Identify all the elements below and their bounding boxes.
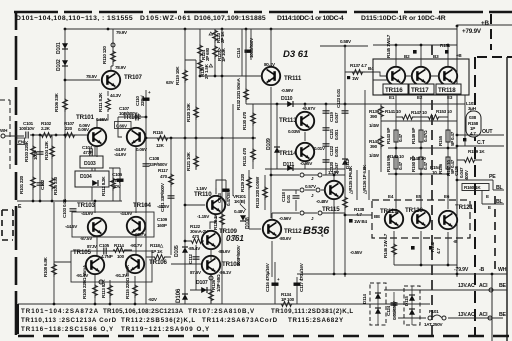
resistor R121 10K bbox=[194, 155, 199, 169]
input terminal bbox=[1, 134, 5, 138]
resistor R123 2P 1K bbox=[214, 29, 216, 76]
wire: TR111 emitter down x271 bbox=[270, 87, 272, 218]
diode D110 bbox=[287, 101, 293, 107]
wire: TR107 collector feed x108 bbox=[111, 29, 113, 70]
svg-text:R119 10K: R119 10K bbox=[175, 66, 180, 85]
resistor R113 82K bbox=[109, 280, 111, 303]
resistor R107 220 bbox=[63, 133, 77, 138]
diode D112 bbox=[342, 159, 348, 165]
capacitor 100P drop bbox=[39, 135, 41, 201]
resistor R135 1P 6.8K bbox=[357, 170, 369, 200]
svg-text:D114: D114 bbox=[362, 294, 367, 304]
resistor R143 5P 0.47 bbox=[394, 130, 398, 142]
transistor TR106 bbox=[126, 255, 144, 273]
svg-text:TR114: TR114 bbox=[279, 150, 297, 157]
capacitor C110 220u bbox=[143, 98, 150, 101]
svg-text:100/10V: 100/10V bbox=[19, 126, 36, 131]
capacitor C112 bbox=[193, 257, 200, 259]
wire: horizontal y104 bbox=[246, 103, 362, 105]
svg-text:1W: 1W bbox=[352, 76, 359, 81]
capacitor C117 470u/16V bbox=[296, 277, 298, 304]
svg-text:0.001: 0.001 bbox=[334, 146, 339, 157]
capacitor C105 bbox=[104, 248, 106, 255]
svg-text:R141 10: R141 10 bbox=[385, 109, 401, 114]
capacitor C103 0.01 bbox=[70, 209, 77, 211]
wire: TR111 base to x222 bbox=[200, 75, 262, 77]
resistor R106 33K bbox=[63, 98, 68, 112]
svg-text:R152: R152 bbox=[430, 241, 435, 252]
resistor R148 (square) bbox=[413, 50, 417, 54]
svg-text:R115 220Ω 45mA: R115 220Ω 45mA bbox=[125, 264, 130, 299]
output box TR119-TR121 dashed bbox=[372, 200, 470, 238]
capacitor C120 0.047 bbox=[323, 160, 330, 162]
resistor R138 4.7 bbox=[343, 196, 348, 210]
svg-text:BE: BE bbox=[499, 312, 507, 318]
wire: vertical x253 R130 R131 bbox=[252, 104, 254, 169]
svg-text:D105: D105 bbox=[174, 245, 180, 257]
svg-text:R110 120: R110 120 bbox=[102, 46, 107, 64]
svg-text:D115: D115 bbox=[404, 296, 409, 306]
svg-text:-0.56V: -0.56V bbox=[279, 216, 292, 221]
svg-text:E: E bbox=[486, 194, 489, 199]
resistor R137 4.7 1W bbox=[345, 72, 387, 76]
svg-text:B2: B2 bbox=[404, 54, 410, 59]
svg-text:1P 10K: 1P 10K bbox=[221, 47, 226, 62]
resistor R104 12K drop bbox=[52, 135, 56, 201]
svg-text:-80.6V: -80.6V bbox=[279, 236, 292, 241]
svg-text:3µH: 3µH bbox=[468, 106, 477, 111]
svg-text:R153 10: R153 10 bbox=[436, 109, 452, 114]
svg-text:WH: WH bbox=[0, 128, 8, 133]
svg-text:D105:WZ-061: D105:WZ-061 bbox=[140, 15, 191, 22]
svg-text:4.7: 4.7 bbox=[356, 212, 362, 217]
svg-text:TR115: TR115 bbox=[322, 206, 340, 213]
wire: TR112 emitter down bbox=[271, 241, 273, 277]
wire: output row y104 bbox=[357, 104, 465, 121]
svg-text:33P/500V: 33P/500V bbox=[149, 162, 168, 167]
resistor R144 5P 0.47 bbox=[394, 157, 398, 169]
svg-text:12K: 12K bbox=[156, 143, 165, 148]
svg-text:TR105: TR105 bbox=[73, 249, 92, 256]
resistor R112 8.2K bbox=[112, 168, 114, 201]
svg-text:-90.7V: -90.7V bbox=[130, 243, 143, 248]
svg-text:C105: C105 bbox=[99, 243, 110, 248]
diode D104 box bbox=[75, 171, 109, 187]
svg-text:1AT 250V: 1AT 250V bbox=[424, 322, 444, 327]
capacitor C119 0.047 bbox=[325, 104, 327, 175]
svg-text:C108: C108 bbox=[149, 156, 160, 161]
capacitor C106 470u 70V bbox=[109, 168, 120, 201]
transistor TR108 bbox=[210, 249, 212, 260]
svg-text:OUT: OUT bbox=[482, 129, 493, 135]
resistor R111 8.2K bbox=[97, 91, 108, 128]
resistor R151 (square) bbox=[445, 50, 449, 54]
wire: E ground rail bbox=[17, 200, 122, 202]
svg-text:B53̨6: B53̨6 bbox=[303, 225, 330, 237]
transistor TR101 bbox=[88, 128, 106, 146]
svg-text:E4: E4 bbox=[388, 194, 394, 199]
wire: vertical x185 bbox=[184, 29, 186, 304]
svg-text:03̆61: 03̆61 bbox=[226, 234, 244, 243]
svg-text:TR109,111:2SD381(2)K,L: TR109,111:2SD381(2)K,L bbox=[271, 308, 353, 315]
svg-text:13V.AC: 13V.AC bbox=[458, 283, 475, 289]
svg-text:R149 5P: R149 5P bbox=[411, 128, 416, 144]
resistor R139 390 bbox=[364, 90, 366, 170]
wire: D103-D104 link bbox=[92, 168, 95, 201]
svg-text:-44.9V: -44.9V bbox=[114, 152, 127, 157]
svg-text:87JV: 87JV bbox=[87, 244, 98, 249]
transistor TR109 bbox=[202, 231, 220, 249]
resistor R101 220 bbox=[31, 176, 36, 190]
wire: vertical x196 bbox=[185, 60, 196, 290]
resistor R125 2P 1.5K bbox=[198, 59, 203, 73]
svg-text:80.4V: 80.4V bbox=[264, 62, 276, 67]
svg-text:87.6V: 87.6V bbox=[190, 270, 202, 275]
svg-text:E: E bbox=[488, 205, 491, 210]
svg-text:220µ/: 220µ/ bbox=[140, 95, 145, 106]
diode D101 bbox=[62, 43, 68, 49]
svg-text:R151: R151 bbox=[440, 43, 451, 48]
transistor TR119 bbox=[385, 210, 403, 228]
svg-text:-92V: -92V bbox=[148, 297, 158, 302]
resistor R128 1K bbox=[221, 205, 223, 240]
svg-text:2P 1.5K: 2P 1.5K bbox=[204, 63, 209, 79]
svg-text:E2: E2 bbox=[417, 95, 423, 100]
capacitor C116 470u/16V bbox=[274, 262, 276, 304]
svg-text:390: 390 bbox=[370, 114, 378, 119]
svg-text:E1: E1 bbox=[389, 95, 395, 100]
svg-text:0.47/35V: 0.47/35V bbox=[226, 188, 231, 206]
wire: TR107 base to bus bbox=[65, 79, 100, 81]
svg-text:+B: +B bbox=[456, 53, 462, 58]
wire: TR101 collector chain down bbox=[94, 147, 96, 156]
resistor R110 120 1/4W bbox=[111, 50, 116, 64]
node: +B top right bbox=[456, 25, 459, 28]
svg-text:+79.9V: +79.9V bbox=[462, 28, 482, 35]
svg-text:TR116: TR116 bbox=[385, 87, 403, 94]
svg-text:D101: D101 bbox=[56, 42, 62, 54]
svg-text:TR118: TR118 bbox=[438, 87, 456, 94]
svg-text:5P 0.47: 5P 0.47 bbox=[450, 131, 455, 146]
svg-text:-45.5V: -45.5V bbox=[157, 204, 170, 209]
resistor R124 2P 680 bbox=[199, 29, 201, 76]
svg-text:2.2K: 2.2K bbox=[41, 126, 51, 131]
svg-text:2P 680: 2P 680 bbox=[205, 47, 210, 61]
resistor R140 390 bbox=[379, 135, 384, 149]
svg-text:0.06V: 0.06V bbox=[79, 123, 91, 128]
svg-text:R146 1W 4.7: R146 1W 4.7 bbox=[383, 233, 388, 258]
svg-text:390: 390 bbox=[370, 144, 378, 149]
svg-text:-0.59V: -0.59V bbox=[281, 88, 294, 93]
svg-text:TR108: TR108 bbox=[222, 261, 241, 268]
svg-text:R118△: R118△ bbox=[150, 243, 164, 248]
transistor TR107 bbox=[102, 71, 120, 89]
svg-text:R130 470: R130 470 bbox=[242, 111, 247, 130]
svg-text:D110: D110 bbox=[281, 96, 293, 102]
capacitor C122 0.001 bbox=[323, 144, 330, 146]
wire: vertical x222 bbox=[221, 29, 223, 304]
wire: +B feed y46 bbox=[373, 45, 457, 66]
svg-text:R128 1K: R128 1K bbox=[213, 213, 218, 230]
svg-text:D106,107,109:1S1885: D106,107,109:1S1885 bbox=[194, 15, 266, 22]
svg-text:1/4W: 1/4W bbox=[369, 123, 380, 128]
inductor L101 3uH bbox=[464, 95, 466, 140]
wire: base chain in driver box bbox=[373, 76, 439, 80]
svg-text:WH: WH bbox=[498, 267, 507, 273]
svg-text:-0.95V: -0.95V bbox=[300, 161, 313, 166]
transistor TR102 bbox=[127, 128, 145, 146]
box around TR105 TR106 bbox=[71, 251, 152, 282]
wire: input line bbox=[5, 135, 88, 136]
resistor R108 6.8K bbox=[53, 202, 55, 304]
svg-text:0.01/630V: 0.01/630V bbox=[392, 300, 397, 320]
wire: x345 long vertical bbox=[344, 46, 346, 277]
svg-text:1W B4: 1W B4 bbox=[354, 219, 367, 224]
wire: +79.9V top rail bbox=[65, 25, 512, 29]
svg-text:R106 33K: R106 33K bbox=[54, 92, 59, 112]
fuse F101 bbox=[428, 316, 432, 320]
transistor TR120 bbox=[412, 210, 430, 228]
svg-text:C102: C102 bbox=[40, 179, 45, 190]
diode D109 bbox=[276, 104, 278, 169]
resistor R150 5P 0.47 bbox=[419, 157, 423, 169]
svg-text:038: 038 bbox=[469, 115, 477, 120]
svg-text:R143 5P: R143 5P bbox=[386, 128, 391, 144]
svg-text:C103 0.01: C103 0.01 bbox=[62, 198, 67, 218]
svg-text:R132 22Ω 50mA: R132 22Ω 50mA bbox=[236, 77, 241, 110]
svg-text:C112: C112 bbox=[188, 254, 193, 264]
transistor TR115 bbox=[325, 181, 343, 199]
resistor R117 470 bbox=[169, 173, 174, 187]
svg-text:TR104: TR104 bbox=[133, 202, 152, 209]
capacitor C124 0.01/630V bbox=[393, 292, 395, 318]
svg-text:C106: C106 bbox=[112, 172, 123, 177]
wire: TR112 base link bbox=[249, 228, 261, 230]
svg-text:0.47: 0.47 bbox=[398, 133, 403, 142]
resistor R116 12K bbox=[146, 137, 256, 139]
svg-text:R103 220K: R103 220K bbox=[24, 140, 29, 162]
svg-text:-86.1V: -86.1V bbox=[219, 270, 232, 275]
svg-text:R131 470: R131 470 bbox=[242, 147, 247, 166]
transistor TR116 bbox=[387, 67, 405, 85]
svg-text:TR121: TR121 bbox=[455, 204, 474, 211]
svg-text:TR110: TR110 bbox=[194, 191, 212, 198]
svg-text:R145 1W4.7: R145 1W4.7 bbox=[386, 34, 391, 58]
resistor R133 220 0.05W bbox=[264, 175, 266, 210]
wire: 0.57V pin line bbox=[282, 189, 315, 191]
svg-text:D108: D108 bbox=[245, 217, 251, 229]
resistor R102 2.2K bbox=[40, 133, 54, 138]
wire: bottom rail left bbox=[18, 303, 430, 305]
svg-text:R147 10: R147 10 bbox=[411, 110, 427, 115]
capacitor C108 33P/500V bbox=[143, 164, 150, 166]
svg-text:D3 61: D3 61 bbox=[283, 49, 308, 60]
svg-text:TR106: TR106 bbox=[149, 259, 168, 266]
capacitor C118 0.01 bbox=[293, 196, 300, 198]
svg-text:R155: R155 bbox=[438, 135, 443, 146]
svg-text:0.66V: 0.66V bbox=[96, 117, 108, 122]
wire: OUT line bbox=[457, 135, 504, 146]
svg-text:79.9V: 79.9V bbox=[116, 30, 128, 35]
svg-text:D111: D111 bbox=[283, 162, 294, 168]
svg-text:R144 5P: R144 5P bbox=[386, 156, 391, 172]
wire: 13V AC line 1 bbox=[384, 289, 507, 291]
svg-text:10: 10 bbox=[432, 170, 437, 175]
wire: left input dashed box bbox=[0, 100, 10, 172]
rectifier D115 bbox=[404, 286, 420, 325]
svg-text:R157 10: R157 10 bbox=[446, 160, 451, 176]
resistor R155 5P 0.47 bbox=[446, 130, 450, 142]
terminal near R109 bbox=[99, 280, 103, 284]
svg-text:TR111: TR111 bbox=[284, 75, 302, 82]
resistor R127 1P 10K bbox=[213, 45, 218, 59]
wire: vertical x233 bbox=[232, 104, 234, 196]
svg-text:BL: BL bbox=[496, 199, 504, 205]
svg-text:4.7NP: 4.7NP bbox=[101, 254, 113, 259]
svg-text:0.001: 0.001 bbox=[334, 129, 339, 140]
svg-text:477P: 477P bbox=[83, 150, 93, 155]
svg-text:+B: +B bbox=[481, 20, 489, 27]
svg-text:TR112:2SB536(2)K,L: TR112:2SB536(2)K,L bbox=[121, 317, 195, 324]
svg-text:+0.97V: +0.97V bbox=[302, 106, 316, 111]
capacitor C107 10P/500V bbox=[118, 117, 146, 137]
svg-text:100P: 100P bbox=[33, 150, 38, 160]
svg-text:TR113: TR113 bbox=[279, 117, 297, 124]
svg-text:44.3V: 44.3V bbox=[110, 93, 122, 98]
svg-text:BL: BL bbox=[496, 185, 504, 191]
wire: row y174 bbox=[388, 173, 448, 175]
transistor TR112 bbox=[263, 220, 281, 238]
svg-text:TR107: TR107 bbox=[124, 74, 143, 81]
svg-text:D103: D103 bbox=[84, 161, 96, 167]
svg-text:0.03W: 0.03W bbox=[288, 129, 301, 134]
resistor R152 4.7 square bbox=[429, 246, 433, 250]
net label 0.58V bbox=[320, 45, 368, 47]
svg-text:70V: 70V bbox=[113, 184, 122, 189]
resistor R160 1K bbox=[462, 184, 489, 191]
svg-text:470µ: 470µ bbox=[112, 178, 122, 183]
svg-text:R120 10K: R120 10K bbox=[186, 102, 191, 122]
wire: right main bus x457 bbox=[457, 26, 492, 341]
diode D106 bbox=[182, 294, 188, 300]
svg-text:R116: R116 bbox=[153, 130, 163, 135]
wire: BL terminal lines bbox=[482, 190, 504, 204]
svg-text:10P/500V: 10P/500V bbox=[119, 111, 138, 116]
svg-text:R150 5P: R150 5P bbox=[411, 156, 416, 172]
svg-text:0.47: 0.47 bbox=[398, 161, 403, 170]
diode D103 box bbox=[80, 156, 103, 168]
svg-text:0.01: 0.01 bbox=[286, 194, 291, 203]
svg-text:D102: D102 bbox=[56, 59, 62, 71]
svg-text:R114: R114 bbox=[114, 243, 124, 248]
wire: vertical x171 bbox=[170, 138, 172, 255]
svg-text:TR117: TR117 bbox=[411, 87, 429, 94]
capacitor C111 33P/500V bbox=[168, 196, 175, 198]
svg-text:63V: 63V bbox=[166, 80, 175, 85]
svg-text:BE: BE bbox=[499, 283, 507, 289]
wire: join row y265 bbox=[394, 265, 457, 277]
resistor R156 5P 0.47 bbox=[446, 157, 450, 169]
svg-text:0.58V: 0.58V bbox=[340, 39, 352, 44]
svg-text:TR120: TR120 bbox=[405, 207, 424, 214]
capacitor C121 0.001 bbox=[323, 128, 330, 130]
svg-text:TR110,113 :2SC1213A CorD: TR110,113 :2SC1213A CorD bbox=[21, 317, 117, 324]
svg-text:1000/500V: 1000/500V bbox=[249, 37, 254, 58]
svg-text:0.47: 0.47 bbox=[423, 161, 428, 170]
svg-text:2P 1K: 2P 1K bbox=[220, 31, 225, 43]
wire: TR103/TR104 emitters down bbox=[97, 236, 136, 255]
svg-text:R137 4.7: R137 4.7 bbox=[350, 63, 367, 68]
resistor R132 22ohm 50mA bbox=[245, 29, 247, 104]
svg-text:78.5V: 78.5V bbox=[86, 74, 98, 79]
diode D108 bbox=[240, 215, 246, 221]
diode D107 bbox=[190, 289, 211, 291]
svg-text:R159 1K: R159 1K bbox=[468, 149, 485, 154]
transistor TR103 bbox=[88, 218, 106, 236]
transistor TR105 bbox=[86, 256, 104, 274]
svg-text:R113 82K: R113 82K bbox=[101, 279, 106, 298]
resistor R130 470 bbox=[251, 112, 256, 126]
svg-text:C.T: C.T bbox=[477, 140, 486, 146]
svg-text:100: 100 bbox=[117, 254, 125, 259]
transistor TR121 bbox=[439, 211, 457, 229]
svg-text:△R136 1P 6.8K: △R136 1P 6.8K bbox=[362, 164, 367, 195]
svg-text:0.47Ω: 0.47Ω bbox=[423, 130, 428, 142]
diode D111 bbox=[265, 163, 345, 169]
transistor TR118 bbox=[439, 67, 457, 85]
svg-text:E5: E5 bbox=[416, 194, 422, 199]
svg-text:R133 220 0.05W: R133 220 0.05W bbox=[255, 176, 260, 208]
svg-text:1/4W: 1/4W bbox=[369, 153, 380, 158]
transistor TR113 bbox=[296, 112, 314, 130]
svg-text:0.047: 0.047 bbox=[334, 112, 339, 123]
svg-text:TR116~118:2SC1586 O,Y: TR116~118:2SC1586 O,Y bbox=[21, 326, 114, 333]
wire: base link TR105 TR106 bbox=[97, 250, 132, 251]
resistor R149 5P 0.47 bbox=[419, 130, 423, 142]
svg-text:13V.AC: 13V.AC bbox=[458, 312, 475, 318]
resistor R109 220ohm 45mA bbox=[94, 275, 96, 303]
wire: TR103 feed bbox=[95, 147, 136, 213]
svg-text:TR105,106,108:2SC1213A: TR105,106,108:2SC1213A bbox=[103, 308, 184, 315]
svg-text:E6: E6 bbox=[444, 194, 450, 199]
resistor R131 470 bbox=[251, 148, 256, 162]
svg-text:R121 10K: R121 10K bbox=[186, 151, 191, 171]
transistor TR114 bbox=[296, 143, 314, 161]
capacitor C101 100/10V bbox=[26, 132, 28, 139]
capacitor C123 0.01 bbox=[344, 104, 346, 120]
svg-text:TR107:2SA810B,V: TR107:2SA810B,V bbox=[188, 308, 255, 315]
svg-text:D114:10DC-1 or 10DC-4: D114:10DC-1 or 10DC-4 bbox=[277, 15, 344, 22]
svg-text:0.57V: 0.57V bbox=[305, 184, 317, 189]
svg-text:-B: -B bbox=[479, 267, 485, 273]
diode D102 bbox=[62, 60, 68, 66]
rectifier D114 bbox=[370, 283, 386, 325]
transistor TR111 bbox=[270, 29, 272, 64]
svg-text:4.7: 4.7 bbox=[436, 248, 441, 254]
capacitor C113 0.47/35V bbox=[216, 180, 226, 205]
svg-text:0.48V: 0.48V bbox=[234, 209, 246, 214]
svg-text:C114: C114 bbox=[236, 48, 241, 58]
transistor TR104 bbox=[127, 217, 145, 235]
svg-text:D107: D107 bbox=[196, 280, 208, 286]
svg-text:1P 1K: 1P 1K bbox=[151, 249, 163, 254]
svg-text:1P 100: 1P 100 bbox=[281, 297, 295, 302]
node dots on input line bbox=[32, 134, 35, 137]
svg-text:220: 220 bbox=[65, 126, 73, 131]
resistor R115 220ohm 45mA bbox=[134, 276, 136, 303]
svg-text:TR115:2SA682Y: TR115:2SA682Y bbox=[288, 317, 344, 324]
svg-text:TR114:2SA673ACorD: TR114:2SA673ACorD bbox=[202, 317, 278, 324]
